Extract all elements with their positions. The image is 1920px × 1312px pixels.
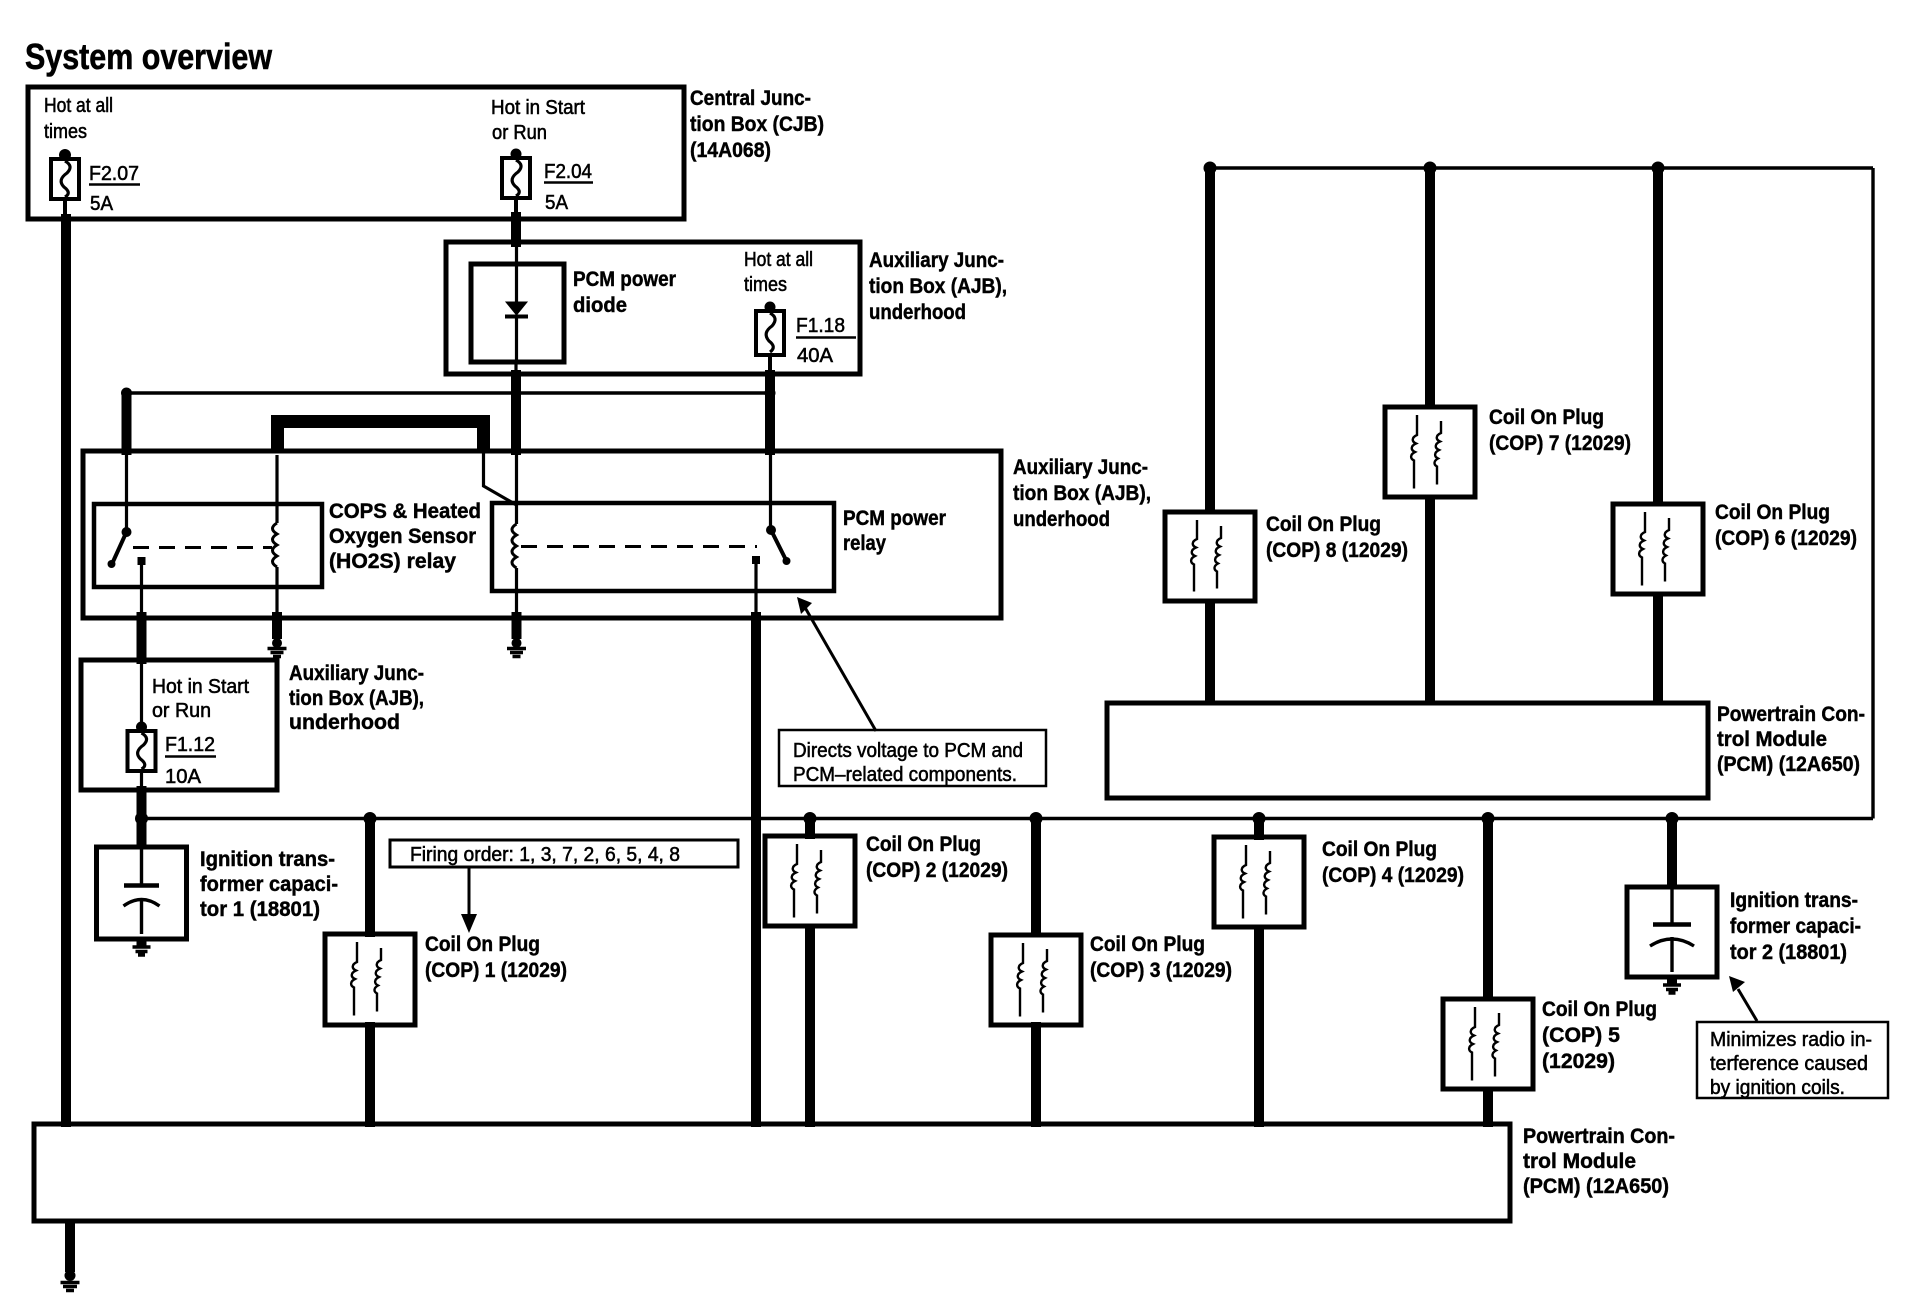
coil on plug COP3 box — [991, 935, 1081, 1025]
fuse F2.07 — [51, 149, 140, 215]
wire: right vertical feeder — [1871, 168, 1874, 819]
wire: COPS pivot supply stub — [122, 393, 132, 455]
svg-text:tion Box (AJB),: tion Box (AJB), — [289, 687, 424, 710]
svg-text:PCM–related components.: PCM–related components. — [793, 764, 1017, 786]
arrow to AJB relay box (from Directs note) — [803, 604, 876, 731]
ignition transformer capacitor 2 (18801) — [1627, 887, 1717, 977]
svg-text:PCM power: PCM power — [843, 507, 946, 530]
svg-text:(PCM) (12A650): (PCM) (12A650) — [1523, 1175, 1669, 1198]
svg-text:former capaci-: former capaci- — [1730, 915, 1861, 938]
ground: PCM relay coil — [507, 612, 526, 657]
svg-text:F2.04: F2.04 — [544, 161, 592, 183]
svg-text:Coil On Plug: Coil On Plug — [1322, 838, 1437, 861]
svg-text:Hot at all: Hot at all — [744, 249, 813, 271]
node: F1.18 junction — [765, 388, 776, 399]
ground: PCM module — [61, 1270, 80, 1291]
coil on plug COP8 box — [1165, 512, 1255, 601]
coil on plug COP4 box — [1214, 837, 1304, 927]
svg-text:tion Box (AJB),: tion Box (AJB), — [869, 275, 1007, 298]
fuse F1.12 — [128, 722, 217, 789]
svg-text:Directs voltage to PCM and: Directs voltage to PCM and — [793, 740, 1023, 762]
svg-text:times: times — [44, 121, 87, 143]
svg-text:(COP) 2 (12029): (COP) 2 (12029) — [866, 859, 1008, 882]
wire into F1.12 fuse — [140, 662, 143, 724]
svg-text:by ignition coils.: by ignition coils. — [1710, 1077, 1845, 1099]
node: bus/COP1 — [364, 812, 377, 825]
ignition transformer capacitor 1 (18801) — [97, 847, 187, 939]
wire: F2.07 to bottom PCM box (left main wire) — [63, 199, 67, 216]
svg-text:tor 1 (18801): tor 1 (18801) — [200, 898, 320, 921]
svg-text:Coil On Plug: Coil On Plug — [425, 933, 540, 956]
PCM relay coil — [515, 455, 518, 524]
PCM relay dashed actuation line — [521, 545, 757, 548]
PCM relay throw wire down — [754, 560, 757, 616]
svg-text:Hot at all: Hot at all — [44, 95, 113, 117]
svg-text:Auxiliary Junc-: Auxiliary Junc- — [1013, 456, 1148, 479]
svg-text:Coil On Plug: Coil On Plug — [1489, 406, 1604, 429]
node: bus/F1.12 — [135, 812, 148, 825]
PCM power diode — [471, 247, 564, 362]
svg-text:(HO2S) relay: (HO2S) relay — [329, 550, 456, 573]
svg-text:(COP) 6 (12029): (COP) 6 (12029) — [1715, 527, 1857, 550]
wire: PCM relay output down to PCM module — [751, 612, 761, 1127]
svg-text:Ignition trans-: Ignition trans- — [1730, 889, 1858, 912]
wire: PCM pivot supply stub — [765, 393, 775, 455]
svg-text:tor 2 (18801): tor 2 (18801) — [1730, 941, 1847, 964]
svg-text:Oxygen Sensor: Oxygen Sensor — [329, 525, 476, 548]
svg-text:underhood: underhood — [869, 301, 966, 324]
svg-text:Powertrain Con-: Powertrain Con- — [1523, 1125, 1675, 1148]
svg-text:Coil On Plug: Coil On Plug — [1090, 933, 1205, 956]
node: COPS pivot supply — [121, 388, 132, 399]
ground: COPS relay coil — [268, 612, 287, 657]
svg-text:Central Junc-: Central Junc- — [690, 87, 811, 110]
fuse F2.04 — [502, 149, 593, 215]
wire: link kink into PCM relay coil — [484, 453, 517, 505]
svg-text:(14A068): (14A068) — [690, 139, 771, 162]
svg-text:10A: 10A — [165, 766, 202, 788]
svg-text:F1.18: F1.18 — [796, 315, 845, 337]
node: bus/COP2 — [804, 812, 817, 825]
fuse F1.18 — [756, 302, 856, 368]
svg-text:F1.12: F1.12 — [165, 734, 215, 756]
svg-text:System overview: System overview — [25, 36, 273, 77]
svg-text:trol Module: trol Module — [1523, 1150, 1636, 1173]
svg-text:F2.07: F2.07 — [89, 163, 139, 185]
node: bus/COP7 — [1424, 162, 1437, 175]
coil on plug COP7 box — [1385, 407, 1475, 497]
COPS relay switch pivot wire — [125, 455, 128, 530]
node: bus/COP4 — [1253, 812, 1266, 825]
svg-text:Firing order: 1, 3, 7, 2, 6, 5: Firing order: 1, 3, 7, 2, 6, 5, 4, 8 — [410, 844, 680, 866]
ground: capacitor 2 — [1663, 977, 1681, 993]
coil on plug COP1 box — [325, 934, 415, 1025]
node: bus/COP8 — [1204, 162, 1217, 175]
COPS relay switch — [108, 527, 146, 568]
wire: COP7 — [1425, 168, 1435, 409]
wire: COP8 — [1205, 168, 1215, 514]
svg-text:Powertrain Con-: Powertrain Con- — [1717, 703, 1865, 726]
svg-text:Minimizes radio in-: Minimizes radio in- — [1710, 1029, 1872, 1051]
svg-text:(12029): (12029) — [1542, 1050, 1615, 1073]
PCM relay switch — [752, 525, 791, 565]
wire: upper right bus y=168 — [1210, 166, 1873, 169]
svg-text:terference caused: terference caused — [1710, 1053, 1868, 1075]
COPS relay coil — [275, 455, 278, 523]
svg-text:times: times — [744, 274, 787, 296]
wire: COP5 — [1483, 819, 1493, 1002]
wire: COP3 — [1031, 819, 1041, 938]
wire: F2.04 down to AJB box — [514, 198, 518, 216]
note box: Minimizes radio interference caused by ignition coils. — [1697, 1022, 1888, 1099]
svg-text:tion Box (AJB),: tion Box (AJB), — [1013, 482, 1151, 505]
wire: COP2 — [805, 819, 815, 840]
node: bus/COP5 — [1482, 812, 1495, 825]
COPS relay inner box — [94, 504, 322, 587]
svg-text:COPS & Heated: COPS & Heated — [329, 500, 481, 523]
arrow from Minimizes note to capacitor 2 — [1738, 989, 1757, 1021]
svg-text:(COP) 4 (12029): (COP) 4 (12029) — [1322, 864, 1464, 887]
svg-text:Coil On Plug: Coil On Plug — [1266, 513, 1381, 536]
wire: F1.18 down to junction — [768, 355, 772, 376]
wire: bus down to ignition transformer capacitor 1 — [137, 819, 147, 850]
wire: F1.12 output down to bus — [140, 771, 143, 790]
svg-text:relay: relay — [843, 532, 886, 555]
svg-text:Auxiliary Junc-: Auxiliary Junc- — [869, 249, 1004, 272]
ground: capacitor 1 — [133, 939, 151, 955]
svg-text:underhood: underhood — [289, 711, 400, 734]
wire: COP6 — [1653, 168, 1663, 506]
node: bus/COP3 — [1030, 812, 1043, 825]
wire: PCM module to ground — [65, 1221, 75, 1272]
node: bus/COP6 — [1652, 162, 1665, 175]
AJB F1.12 box — [81, 660, 277, 790]
svg-text:Coil On Plug: Coil On Plug — [1715, 501, 1830, 524]
COPS relay throw wire down — [140, 561, 143, 616]
svg-text:Auxiliary Junc-: Auxiliary Junc- — [289, 662, 424, 685]
wire: COPS throw down into F1.12 box — [137, 612, 147, 664]
Powertrain Control Module (PCM) box (bottom) — [34, 1124, 1510, 1221]
wire: COP1 — [365, 819, 375, 938]
COPS relay dashed actuation line — [133, 546, 272, 549]
svg-text:Coil On Plug: Coil On Plug — [1542, 998, 1657, 1021]
svg-text:5A: 5A — [545, 192, 569, 214]
svg-text:Ignition trans-: Ignition trans- — [200, 848, 335, 871]
note box: Directs voltage to PCM and PCM-related components. — [779, 730, 1046, 786]
svg-text:(COP) 3 (12029): (COP) 3 (12029) — [1090, 959, 1232, 982]
svg-text:(COP) 7 (12029): (COP) 7 (12029) — [1489, 432, 1631, 455]
coil on plug COP5 box — [1443, 999, 1533, 1089]
svg-text:former capaci-: former capaci- — [200, 873, 338, 896]
node: bus/capacitor2 — [1666, 812, 1679, 825]
svg-text:or Run: or Run — [492, 122, 547, 144]
wire: capacitor 2 — [1667, 819, 1677, 890]
svg-text:(COP) 5: (COP) 5 — [1542, 1024, 1620, 1047]
svg-text:(COP) 1 (12029): (COP) 1 (12029) — [425, 959, 567, 982]
svg-text:40A: 40A — [797, 345, 834, 367]
coil on plug COP2 box — [765, 836, 855, 926]
coil on plug COP6 box — [1613, 504, 1703, 594]
PCM relay switch pivot wire — [769, 455, 772, 528]
svg-text:5A: 5A — [90, 193, 114, 215]
svg-text:(PCM) (12A650): (PCM) (12A650) — [1717, 753, 1860, 776]
wire: lower distribution bus y=818 — [142, 817, 1874, 820]
Auxiliary Junction Box (AJB) underhood - diode box — [446, 242, 860, 374]
svg-text:Coil On Plug: Coil On Plug — [866, 833, 981, 856]
svg-text:or Run: or Run — [152, 700, 211, 722]
svg-text:Hot in Start: Hot in Start — [152, 676, 249, 698]
Auxiliary Junction Box (AJB) underhood - relay box — [83, 451, 1001, 618]
svg-text:diode: diode — [573, 294, 627, 317]
wire: diode output down to relay box — [514, 362, 517, 376]
wire: COP4 — [1254, 819, 1264, 841]
svg-text:tion Box (CJB): tion Box (CJB) — [690, 113, 824, 136]
wire: thick U link between relay coils — [278, 422, 484, 454]
svg-text:Hot in Start: Hot in Start — [491, 97, 585, 119]
arrow from firing order box — [468, 867, 471, 916]
wire: switched bus y=393 — [127, 391, 771, 394]
svg-text:trol Module: trol Module — [1717, 728, 1827, 751]
svg-text:PCM power: PCM power — [573, 268, 676, 291]
Powertrain Control Module (PCM) box (upper right) — [1107, 703, 1708, 798]
note box: Firing order — [390, 840, 738, 867]
svg-text:(COP) 8 (12029): (COP) 8 (12029) — [1266, 539, 1408, 562]
PCM power relay inner box — [492, 503, 834, 591]
Central Junction Box (CJB) — [28, 87, 684, 219]
svg-text:underhood: underhood — [1013, 508, 1110, 531]
